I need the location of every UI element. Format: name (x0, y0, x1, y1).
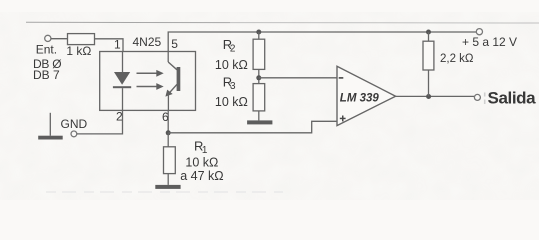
junction pin6 node (166, 130, 171, 135)
scan artifact top line (26, 21, 539, 24)
pin 5 label (171, 37, 178, 51)
label R2 10 kOhm (215, 58, 248, 72)
supply terminal (476, 29, 482, 35)
colon artifact (484, 93, 486, 105)
svg-text:LM 339: LM 339 (340, 93, 380, 105)
svg-text:1: 1 (114, 37, 121, 51)
label R2 (223, 37, 236, 54)
junction output node (426, 94, 431, 99)
svg-text:4N25: 4N25 (133, 35, 162, 49)
light arrow 1 (137, 70, 164, 77)
pin 1 label (114, 37, 121, 51)
pin 6 label (162, 110, 169, 124)
wire terminal to R input (51, 38, 68, 40)
input terminal Ent. (45, 35, 51, 41)
ground below R3 (247, 120, 272, 124)
resistor R2 (253, 32, 265, 84)
svg-text:+ 5 a 12 V: + 5 a 12 V (462, 35, 517, 49)
resistor R1 (164, 133, 176, 185)
label GND (61, 117, 88, 131)
wire R2R3 node to minus input (259, 77, 337, 79)
svg-text:2,2 kΩ: 2,2 kΩ (440, 53, 474, 65)
LED inside 4N25 (113, 52, 131, 111)
top rail from pin5 (168, 32, 479, 52)
label LM 339 (340, 93, 380, 105)
label Ent. (36, 42, 57, 56)
svg-text:3: 3 (230, 81, 236, 92)
resistor R3 (253, 84, 265, 121)
optocoupler 4N25 box U1 (100, 52, 196, 111)
ground symbol left (38, 113, 63, 140)
svg-text:DB 7: DB 7 (33, 68, 60, 82)
label 2,2 kOhm (440, 53, 474, 65)
label R1 a 47 kOhm (180, 169, 223, 183)
phototransistor inside 4N25 (165, 52, 180, 111)
output terminal Salida (474, 94, 480, 100)
comparator LM339 U2 (337, 66, 396, 125)
svg-text:GND: GND (61, 117, 88, 131)
junction rail 2.2k (426, 30, 431, 35)
resistor 2,2 kOhm (423, 32, 434, 96)
label R1 (194, 138, 208, 156)
junction R2 top (256, 30, 261, 35)
svg-text:5: 5 (171, 37, 178, 51)
label R1 10 kOhm (185, 156, 218, 170)
svg-text:10 kΩ: 10 kΩ (215, 95, 248, 109)
resistor 1 kOhm (68, 34, 95, 45)
minus input mark (339, 77, 344, 79)
junction R2-R3 node (256, 75, 261, 80)
plus input mark (340, 116, 346, 122)
light arrow 2 (137, 83, 164, 90)
svg-text:Ent.: Ent. (36, 42, 57, 56)
paper texture (0, 12, 539, 200)
wire pin6 down (167, 110, 169, 132)
wire GND to pin2 (77, 110, 123, 133)
scan artifact bottom dashes (46, 191, 283, 193)
output wire (396, 95, 475, 97)
svg-text:10 kΩ: 10 kΩ (215, 58, 248, 72)
label DB 7 (33, 68, 60, 82)
wire pin6 to plus input (168, 121, 337, 133)
label 1 kOhm (66, 44, 91, 58)
svg-text:2: 2 (230, 44, 236, 55)
svg-text:Salida: Salida (488, 89, 537, 108)
label Salida (488, 89, 537, 108)
GND terminal (71, 131, 77, 137)
svg-text:1 kΩ: 1 kΩ (66, 44, 91, 58)
label R3 10 kOhm (215, 95, 248, 109)
label +5 a 12 V (462, 35, 517, 49)
wire R to pin1 (95, 39, 124, 52)
svg-text:10 kΩ: 10 kΩ (185, 156, 218, 170)
label R3 (223, 75, 236, 93)
svg-text:1: 1 (202, 145, 208, 156)
label DB 0 (33, 57, 61, 71)
pin 2 label (116, 110, 123, 124)
svg-text:a 47 kΩ: a 47 kΩ (180, 169, 223, 183)
label 4N25 (133, 35, 162, 49)
ground below R1 (155, 185, 180, 189)
